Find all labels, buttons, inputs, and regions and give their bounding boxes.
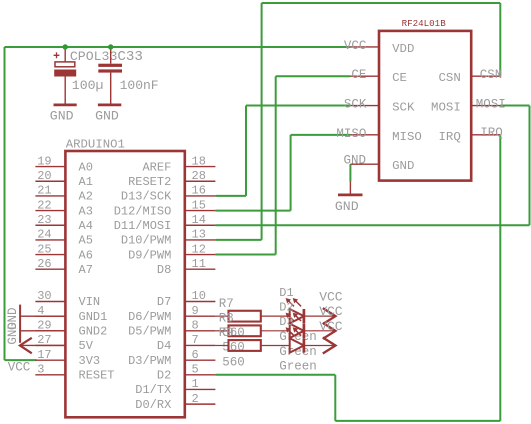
wire CSN net: horizontal from Arduino D10/PWM pin 13 — [215, 239, 261, 241]
svg-text:560: 560 — [222, 341, 245, 355]
pin 29 (GND2) stub — [35, 330, 65, 332]
svg-text:VCC: VCC — [344, 39, 367, 53]
pin 13 (D10/PWM) stub — [185, 239, 216, 241]
svg-text:C33: C33 — [117, 49, 143, 65]
wire MISO net: vertical — [290, 135, 292, 211]
svg-text:ARDUINO1: ARDUINO1 — [66, 138, 125, 152]
svg-text:GND1: GND1 — [79, 310, 108, 324]
pin 6 (D3/PWM) stub — [185, 359, 216, 361]
LED D3 triangle — [290, 338, 304, 352]
svg-text:GND: GND — [95, 108, 119, 123]
wire MISO net: horizontal into module MISO — [291, 134, 351, 136]
wire CE net: horizontal from Arduino D9/PWM pin 12 — [215, 254, 275, 256]
svg-text:VDD: VDD — [392, 42, 414, 56]
svg-text:D13/SCK: D13/SCK — [121, 190, 172, 204]
wire resistor R8 to LED D2 anode — [261, 330, 290, 332]
module pin IRQ stub — [471, 134, 500, 136]
svg-text:MOSI: MOSI — [476, 98, 506, 112]
wire SCK net: horizontal into module SCK — [246, 105, 350, 107]
pin 27 (5V) stub — [35, 344, 65, 346]
module pin CE stub — [350, 75, 379, 77]
wire VCC net: left vertical rail — [4, 47, 6, 360]
svg-text:A2: A2 — [79, 190, 93, 204]
svg-text:GND: GND — [6, 307, 20, 330]
svg-text:MISO: MISO — [392, 130, 422, 144]
wire LED D2 cathode to VCC — [304, 330, 336, 332]
svg-text:VCC: VCC — [319, 319, 343, 334]
svg-text:CE: CE — [351, 68, 366, 82]
svg-text:12: 12 — [192, 242, 206, 256]
pin 11 (D8) stub — [185, 268, 216, 270]
module pin MISO stub — [350, 134, 379, 136]
module RF24L01B body — [379, 31, 471, 181]
pin 15 (D12/MISO) stub — [185, 210, 216, 212]
svg-text:D7: D7 — [157, 295, 171, 309]
LED D3 emission arrows — [288, 330, 294, 336]
svg-text:A6: A6 — [79, 248, 93, 262]
svg-text:14: 14 — [192, 213, 206, 227]
wire VCC net: top horizontal from left rail to module VDD — [5, 46, 351, 48]
svg-text:GND: GND — [50, 108, 74, 123]
svg-text:Green: Green — [279, 359, 317, 373]
svg-text:D1: D1 — [279, 286, 293, 300]
supply symbol VCC at LED D3 — [323, 337, 336, 353]
svg-text:1: 1 — [192, 377, 199, 391]
svg-text:D6/PWM: D6/PWM — [128, 310, 171, 324]
svg-text:19: 19 — [37, 154, 51, 168]
capacitor C33 plate 2 — [98, 69, 122, 72]
svg-text:D2: D2 — [279, 300, 293, 314]
svg-text:28: 28 — [192, 169, 206, 183]
capacitor CPOL33 positive plate — [55, 62, 75, 67]
pin 12 (D9/PWM) stub — [185, 254, 216, 256]
wire CSN net: top horizontal — [262, 2, 501, 4]
wire IRQ net: vertical from module IRQ down — [499, 135, 501, 421]
svg-text:RF24L01B: RF24L01B — [402, 18, 447, 29]
LED D2 cathode bar — [303, 324, 306, 338]
svg-text:15: 15 — [192, 198, 206, 212]
svg-text:26: 26 — [37, 257, 51, 271]
pin 8 (D5/PWM) stub — [185, 330, 216, 332]
pin 17 (3V3) stub — [35, 359, 65, 361]
svg-text:D8: D8 — [157, 263, 171, 277]
LED D1 triangle — [290, 309, 304, 323]
LED D1 cathode bar — [303, 309, 306, 323]
wire IRQ net: vertical up to D2 row — [334, 375, 336, 421]
svg-text:A7: A7 — [79, 263, 93, 277]
capacitor CPOL33 stem bottom — [64, 77, 66, 104]
pin 21 (A2) stub — [35, 195, 65, 197]
svg-text:13: 13 — [192, 228, 206, 242]
svg-text:9: 9 — [192, 304, 199, 318]
svg-text:VIN: VIN — [79, 295, 101, 309]
pin 19 (A0) stub — [35, 166, 65, 168]
svg-text:A5: A5 — [79, 234, 93, 248]
svg-text:8: 8 — [192, 319, 199, 333]
svg-text:IRQ: IRQ — [438, 130, 460, 144]
svg-text:A0: A0 — [79, 160, 93, 174]
svg-text:A1: A1 — [79, 175, 93, 189]
wire IRQ net: horizontal from Arduino D2 pin 5 — [215, 374, 335, 376]
svg-text:11: 11 — [192, 257, 206, 271]
svg-text:VCC: VCC — [319, 290, 343, 305]
wire resistor R9 to LED D3 anode — [261, 344, 290, 346]
junction on VCC net at CPOL33 top — [62, 44, 67, 49]
wire GND net: GND2 horizontal to pin 29 — [20, 330, 65, 332]
wire SCK net: horizontal from Arduino D13/SCK pin 16 — [215, 195, 246, 197]
module pin VDD stub — [350, 46, 379, 48]
resistor R7 body — [229, 311, 261, 322]
svg-text:SCK: SCK — [344, 98, 367, 112]
pin 2 (D0/RX) stub — [185, 403, 216, 405]
svg-text:D12/MISO: D12/MISO — [114, 204, 172, 218]
svg-text:AREF: AREF — [142, 160, 171, 174]
svg-text:D11/MOSI: D11/MOSI — [114, 219, 172, 233]
ground symbol below module — [338, 194, 363, 197]
svg-text:18: 18 — [192, 154, 206, 168]
svg-text:D1/TX: D1/TX — [135, 383, 171, 397]
svg-text:7: 7 — [192, 333, 199, 347]
svg-text:5V: 5V — [79, 339, 94, 353]
module pin SCK stub — [350, 105, 379, 107]
pin 14 (D11/MOSI) stub — [185, 224, 216, 226]
svg-text:100nF: 100nF — [120, 78, 159, 93]
svg-text:560: 560 — [222, 355, 245, 369]
svg-text:CE: CE — [392, 71, 407, 85]
wire MOSI net: vertical at right edge — [529, 106, 531, 226]
svg-text:25: 25 — [37, 242, 51, 256]
wire SCK net: vertical — [245, 106, 247, 196]
wire MOSI net: horizontal from module MOSI — [500, 105, 529, 107]
svg-text:R9: R9 — [219, 326, 234, 340]
LED D1 emission arrows — [288, 300, 294, 306]
wire CSN net: vertical down to module CSN — [499, 3, 501, 76]
svg-text:24: 24 — [37, 228, 51, 242]
svg-text:D3/PWM: D3/PWM — [128, 354, 171, 368]
svg-text:17: 17 — [37, 348, 51, 362]
svg-text:16: 16 — [192, 184, 206, 198]
svg-text:A3: A3 — [79, 204, 93, 218]
svg-text:MISO: MISO — [336, 127, 366, 141]
pin 4 (GND1) stub — [35, 315, 65, 317]
svg-text:A4: A4 — [79, 219, 93, 233]
wire CE net: vertical — [275, 76, 277, 254]
wire resistor R7 to LED D1 anode — [261, 315, 290, 317]
pin 16 (D13/SCK) stub — [185, 195, 216, 197]
resistor R8 body — [229, 325, 261, 336]
svg-text:VCC: VCC — [319, 304, 343, 319]
capacitor CPOL33 negative plate — [54, 70, 76, 77]
svg-text:3: 3 — [37, 363, 44, 377]
wire MISO net: horizontal from Arduino D12/MISO pin 15 — [215, 210, 290, 212]
pin 9 (D6/PWM) stub — [185, 315, 216, 317]
svg-text:D2: D2 — [157, 369, 171, 383]
svg-text:MOSI: MOSI — [431, 101, 461, 115]
svg-text:RESET2: RESET2 — [128, 175, 171, 189]
module pin GND stub — [350, 163, 379, 165]
LED D2 emission arrows — [288, 315, 294, 321]
resistor R9 body — [229, 340, 261, 351]
svg-text:SCK: SCK — [392, 101, 415, 115]
arduino ARDUINO1 body — [65, 151, 184, 417]
svg-text:5: 5 — [192, 363, 199, 377]
ground symbol below CPOL33 — [54, 104, 77, 107]
wire from Arduino pin to resistor R9 — [215, 344, 228, 346]
pin 30 (VIN) stub — [35, 301, 65, 303]
pin 20 (A1) stub — [35, 180, 65, 182]
svg-text:20: 20 — [37, 169, 51, 183]
wire VCC net: bottom horizontal to Arduino 3V3 pin 17 — [5, 359, 37, 361]
svg-text:RESET: RESET — [79, 369, 115, 383]
pin 24 (A5) stub — [35, 239, 65, 241]
svg-text:GND: GND — [392, 159, 414, 173]
pin 18 (AREF) stub — [185, 166, 216, 168]
LED D3 cathode bar — [303, 338, 306, 352]
capacitor CPOL33 plus sign — [54, 52, 60, 58]
svg-text:3V3: 3V3 — [79, 354, 101, 368]
svg-text:21: 21 — [37, 184, 51, 198]
module pin MOSI stub — [471, 105, 500, 107]
pin 5 (D2) stub — [185, 374, 216, 376]
svg-text:VCC: VCC — [8, 360, 31, 374]
wire to pin 27 (5V) from ground arrow — [20, 344, 66, 346]
pin 23 (A4) stub — [35, 224, 65, 226]
capacitor C33 stem top — [110, 47, 112, 64]
svg-text:GND2: GND2 — [79, 325, 108, 339]
pin 7 (D4) stub — [185, 344, 216, 346]
pin 1 (D1/TX) stub — [185, 388, 216, 390]
svg-text:GND: GND — [343, 153, 366, 167]
wire CE net: horizontal into module CE — [276, 75, 351, 77]
svg-text:CSN: CSN — [480, 68, 503, 82]
supply symbol VCC at LED D1 — [323, 308, 336, 324]
svg-text:D5/PWM: D5/PWM — [128, 325, 171, 339]
svg-text:IRQ: IRQ — [480, 126, 503, 140]
ground symbol pin below module — [349, 182, 351, 194]
svg-text:22: 22 — [37, 198, 51, 212]
svg-text:D10/PWM: D10/PWM — [121, 234, 171, 248]
pin 22 (A3) stub — [35, 210, 65, 212]
svg-text:Green: Green — [279, 345, 317, 359]
svg-text:100µ: 100µ — [72, 78, 104, 93]
svg-text:CSN: CSN — [438, 71, 460, 85]
capacitor C33 plate 1 — [98, 64, 122, 67]
pin 25 (A6) stub — [35, 254, 65, 256]
wire GND net: GND1 horizontal to pin 4 — [20, 315, 65, 317]
svg-text:R7: R7 — [219, 297, 234, 311]
capacitor CPOL33 stem top — [64, 47, 66, 62]
junction on VCC net at C33 top — [108, 44, 113, 49]
wire LED D3 cathode to VCC — [304, 344, 336, 346]
LED D2 triangle — [290, 324, 304, 338]
ground symbol below C33 — [98, 104, 121, 107]
pin 3 (RESET) stub — [35, 374, 65, 376]
pin 28 (RESET2) stub — [185, 180, 216, 182]
ground arrow symbol — [20, 338, 32, 354]
pin 10 (D7) stub — [185, 301, 216, 303]
wire GND net: module GND down segment — [349, 164, 351, 181]
svg-text:30: 30 — [37, 289, 51, 303]
svg-text:D3: D3 — [279, 315, 293, 329]
wire MOSI net: horizontal to Arduino D11/MOSI pin 14 — [215, 224, 529, 226]
wire IRQ net: bottom horizontal — [335, 420, 500, 422]
capacitor C33 stem bottom — [110, 73, 112, 104]
svg-text:GND: GND — [335, 199, 359, 214]
svg-text:2: 2 — [192, 392, 199, 406]
pin 26 (A7) stub — [35, 268, 65, 270]
wire LED D1 cathode to VCC — [304, 315, 336, 317]
wire from Arduino pin to resistor R8 — [215, 330, 228, 332]
supply symbol VCC at LED D2 — [323, 323, 336, 339]
svg-text:D9/PWM: D9/PWM — [128, 248, 171, 262]
svg-text:D0/RX: D0/RX — [135, 398, 171, 412]
svg-text:D4: D4 — [157, 339, 171, 353]
svg-text:R8: R8 — [219, 311, 234, 325]
svg-text:6: 6 — [192, 348, 199, 362]
svg-text:23: 23 — [37, 213, 51, 227]
wire CSN net: vertical up — [261, 3, 263, 240]
wire from Arduino pin to resistor R7 — [215, 315, 228, 317]
wire GND net: vertical joining GND1 and GND2 pins — [19, 305, 21, 343]
module pin CSN stub — [471, 75, 500, 77]
svg-text:10: 10 — [192, 289, 206, 303]
